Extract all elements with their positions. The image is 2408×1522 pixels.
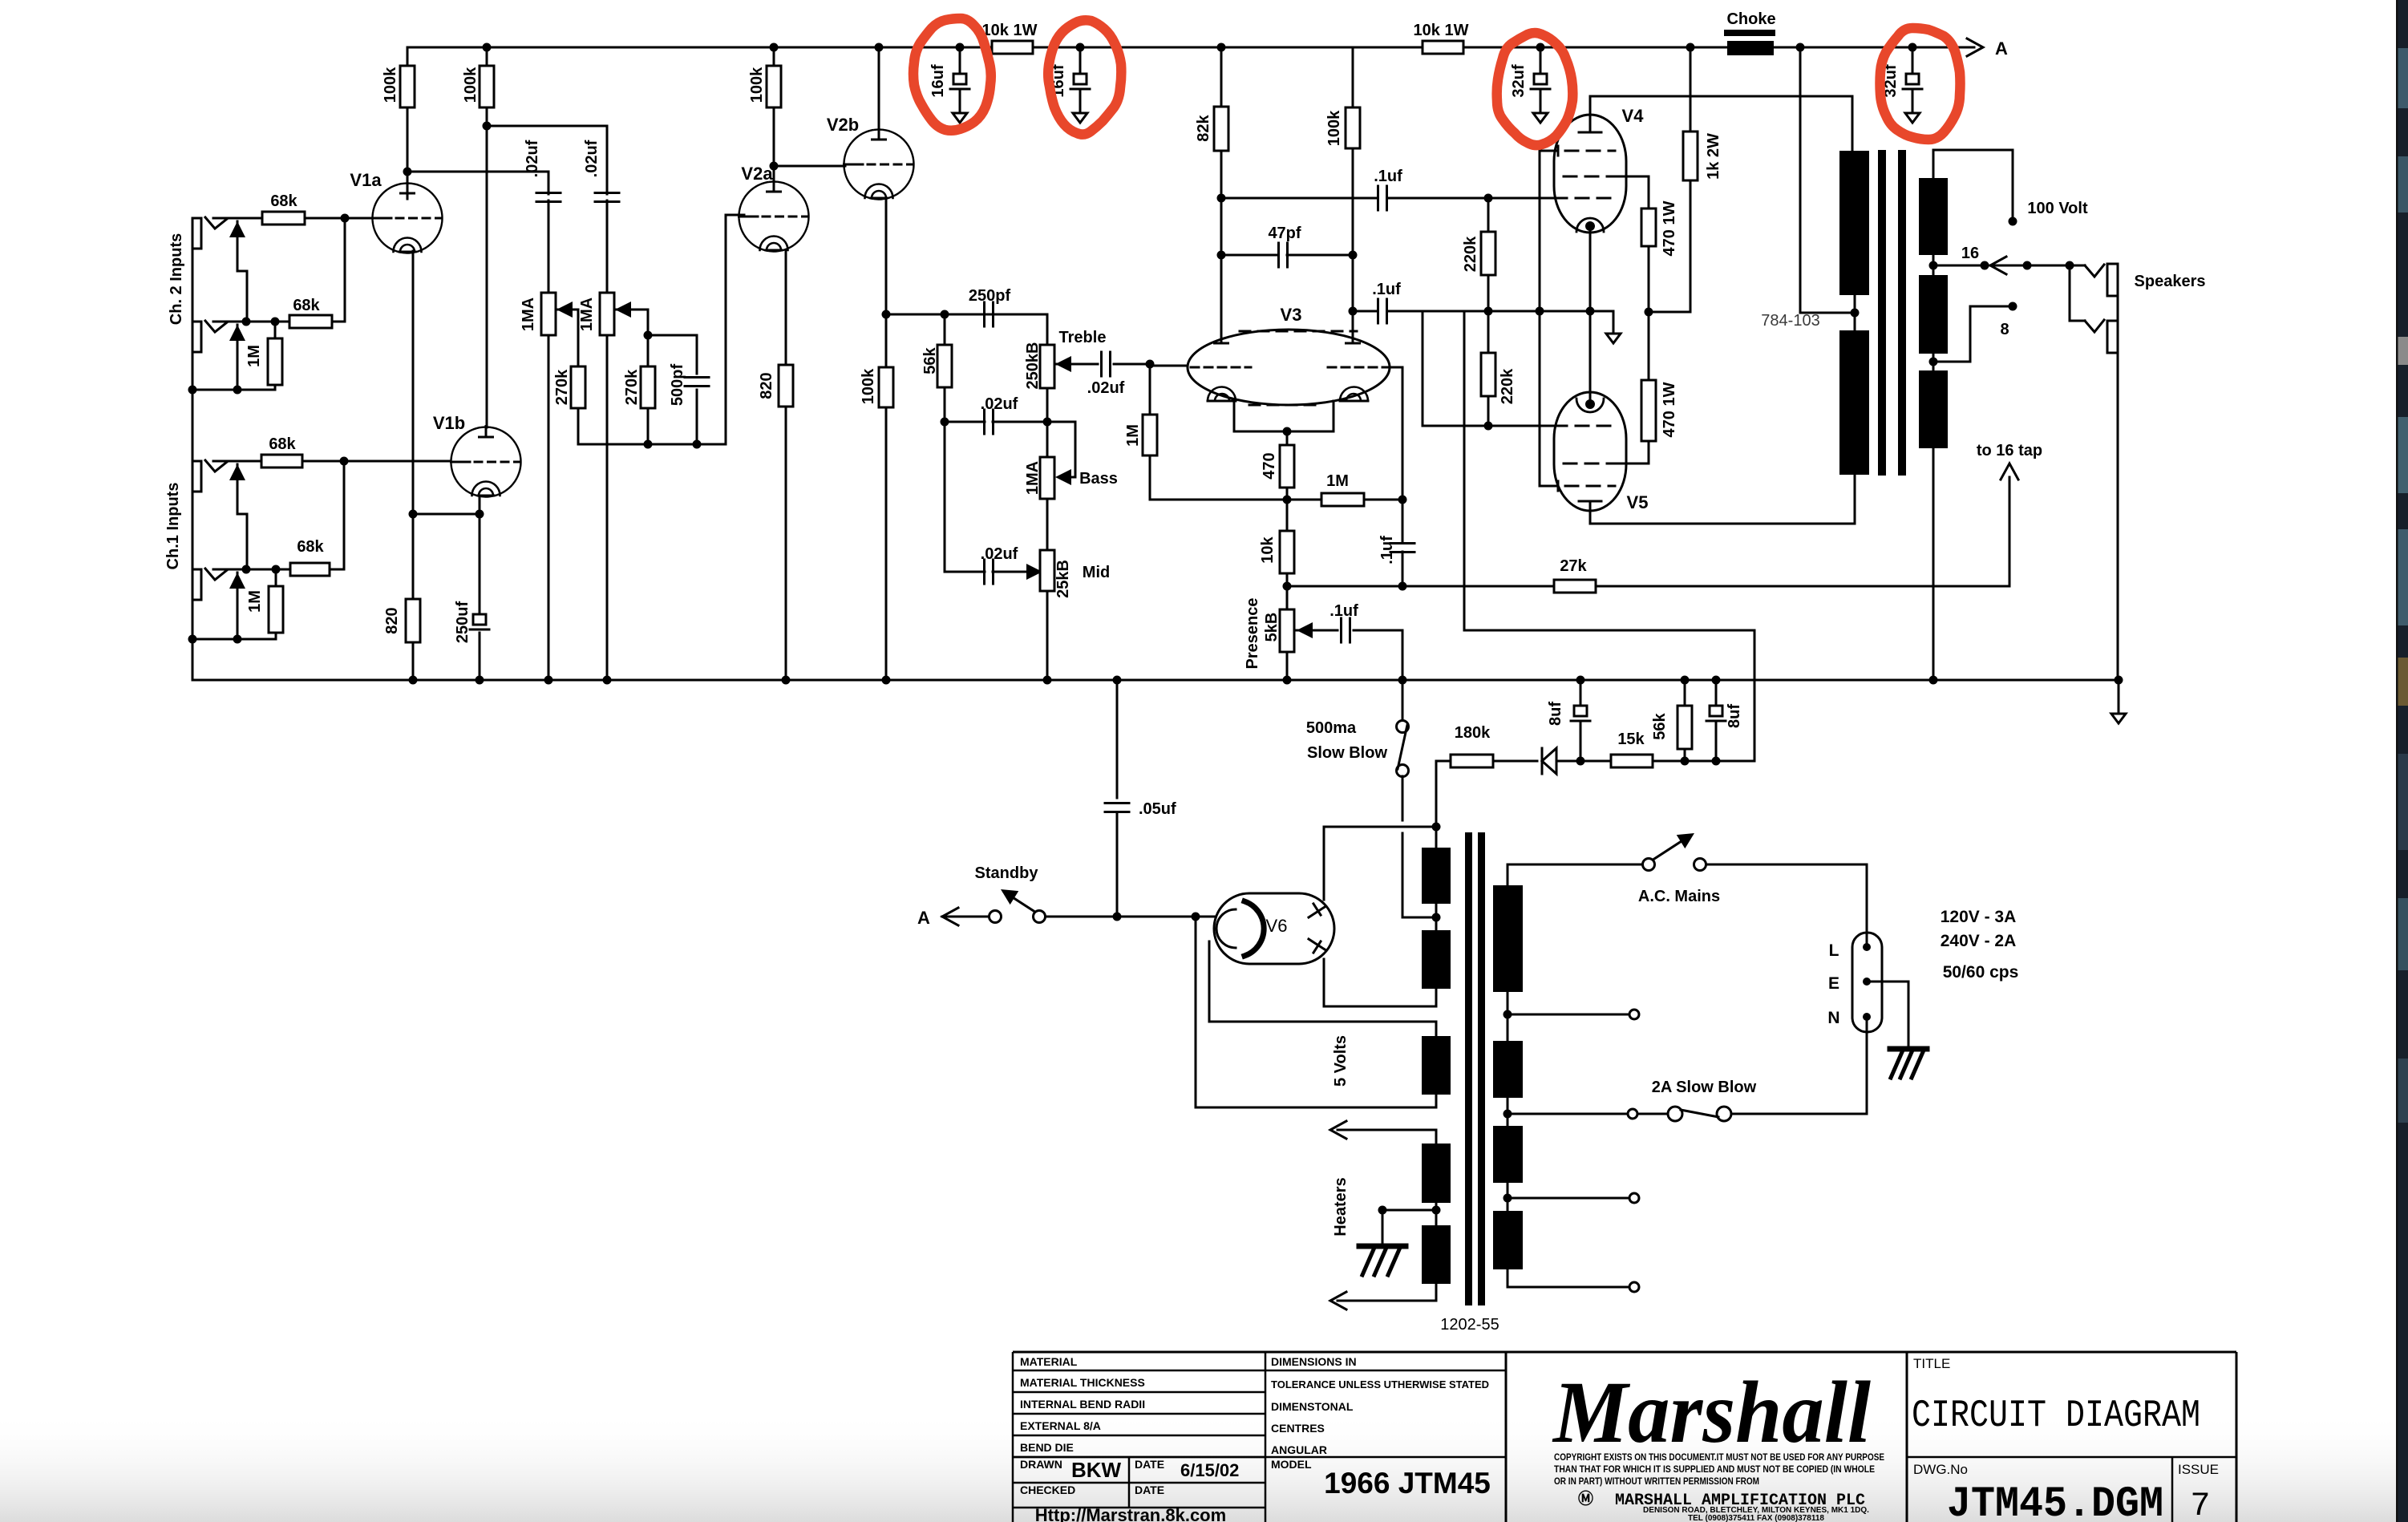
- svg-text:DWG.No: DWG.No: [1913, 1462, 1968, 1477]
- capacitor 32uf (filter 4): [1912, 47, 1914, 74]
- resistor 10k 1W (dropper 1): [992, 41, 1033, 54]
- pot treble wiper: [1055, 356, 1071, 372]
- V3 right cathode: [1340, 387, 1368, 402]
- svg-text:THAN THAT FOR WHICH IT IS SUPP: THAN THAT FOR WHICH IT IS SUPPLIED AND M…: [1554, 1463, 1875, 1475]
- node cathode ground ties: [1536, 307, 1544, 316]
- resistor 1M (V3 grid): [1149, 364, 1151, 415]
- V3 heater dashes: [1249, 404, 1323, 407]
- svg-text:56k: 56k: [921, 346, 939, 374]
- svg-text:BEND DIE: BEND DIE: [1020, 1441, 1074, 1454]
- svg-text:240V - 2A: 240V - 2A: [1941, 932, 2017, 950]
- svg-text:.1uf: .1uf: [1329, 602, 1358, 620]
- capacitor 250pf (treble cap): [983, 302, 985, 326]
- red circle annotation 3 (32uf): [1497, 33, 1573, 145]
- svg-text:2A Slow Blow: 2A Slow Blow: [1652, 1079, 1757, 1096]
- wire 68k-2 up to grid node: [332, 321, 345, 323]
- wire 100V tap: [1932, 150, 1935, 178]
- wire NFB to 16 tap: [2009, 477, 2011, 586]
- svg-text:OR IN PART) WITHOUT WRITTEN PE: OR IN PART) WITHOUT WRITTEN PERMISSION F…: [1554, 1475, 1759, 1487]
- svg-text:L: L: [1829, 941, 1839, 960]
- pot 1MA-2 wiper: [615, 302, 631, 318]
- svg-text:Choke: Choke: [1726, 10, 1775, 28]
- resistor 220k (V4 grid return): [1487, 198, 1490, 232]
- capacitor .1uf (NFB block): [1402, 500, 1404, 543]
- triode V1a: [373, 184, 443, 253]
- svg-text:.1uf: .1uf: [1374, 168, 1402, 185]
- wire primary top to switch: [1507, 864, 1509, 885]
- transformer core (mains): [1465, 832, 1472, 1305]
- svg-text:DRAWN: DRAWN: [1020, 1458, 1062, 1471]
- node 32uf-1 tee: [1536, 43, 1545, 52]
- node V2a plate junction: [770, 162, 779, 171]
- svg-text:15k: 15k: [1617, 731, 1645, 748]
- svg-text:5 Volts: 5 Volts: [1332, 1035, 1350, 1087]
- resistor 820 (V1 cathode): [406, 599, 420, 642]
- capacitor .05uf: [1116, 680, 1119, 798]
- wire V3 grid entry: [1150, 365, 1188, 367]
- grid-stopper arrow Ch1-2: [229, 573, 245, 589]
- primary tap fuse: [1503, 1110, 1512, 1119]
- V6 anode ticks: [1309, 907, 1325, 917]
- node 32uf-2 tee: [1908, 43, 1917, 52]
- V6 filament: [1216, 909, 1236, 948]
- wire heater bottom: [1435, 1284, 1438, 1301]
- wire V1a cathode down: [412, 251, 415, 514]
- svg-text:V1b: V1b: [433, 413, 465, 433]
- fuse 500ma Slow Blow: [1402, 680, 1404, 721]
- resistor 10k 1W (dropper 2): [1423, 41, 1463, 54]
- wire Ch2 jack1 to 68k: [213, 217, 262, 220]
- node V4 grid junction: [1484, 194, 1493, 203]
- svg-text:100k: 100k: [748, 67, 766, 103]
- speaker jack 1: [2070, 265, 2085, 267]
- svg-text:180k: 180k: [1455, 724, 1491, 742]
- wire tone stack feed: [886, 314, 1047, 316]
- svg-text:DATE: DATE: [1135, 1484, 1164, 1496]
- svg-text:100 Volt: 100 Volt: [2027, 200, 2088, 217]
- chassis ground (heater): [1359, 1244, 1406, 1249]
- node V3 right plate junction: [1349, 307, 1358, 316]
- wire V1 cathode to 820: [412, 514, 415, 599]
- svg-text:1MA: 1MA: [578, 298, 596, 331]
- wire V6 anode 1: [1323, 827, 1325, 900]
- transformer heater winding: [1422, 1144, 1451, 1203]
- capacitor .02uf (mid feed): [944, 422, 946, 572]
- wire 8 tap: [1933, 361, 1970, 363]
- wire fuse to N: [1731, 1113, 1867, 1115]
- svg-text:250kB: 250kB: [1024, 342, 1042, 390]
- jack Ch2 input 2: [192, 322, 201, 352]
- node rail choke-left: [1686, 43, 1695, 52]
- svg-text:8uf: 8uf: [1547, 702, 1564, 726]
- potentiometer 1MA (Ch2 volume): [541, 293, 556, 335]
- svg-text:470: 470: [1261, 452, 1278, 479]
- svg-text:6/15/02: 6/15/02: [1180, 1460, 1239, 1480]
- wire bias feed: [1423, 310, 1613, 313]
- svg-text:5kB: 5kB: [1263, 613, 1281, 642]
- svg-text:CHECKED: CHECKED: [1020, 1484, 1075, 1496]
- wire V1b cathode down: [479, 496, 481, 514]
- node diode/8uf junction: [1576, 757, 1585, 766]
- wire Ch1 jack1 to 68k: [213, 460, 261, 463]
- pot bass wiper arrow: [1055, 469, 1071, 485]
- resistor 100k (V1b plate load): [486, 47, 488, 66]
- capacitor .02uf (treble out): [1100, 352, 1103, 376]
- pot presence wiper: [1297, 622, 1313, 638]
- svg-text:E: E: [1828, 974, 1839, 993]
- svg-text:10k 1W: 10k 1W: [982, 22, 1038, 39]
- desktop sliver at right edge: [2396, 0, 2408, 1522]
- resistor 15k (bias): [1611, 755, 1653, 767]
- potentiometer 5kB Presence: [1286, 586, 1289, 609]
- resistor 820 (V2a cathode): [785, 251, 787, 365]
- svg-text:1k 2W: 1k 2W: [1705, 133, 1722, 180]
- transformer core: [1878, 150, 1886, 476]
- node V3 cathode/1M junction: [1283, 496, 1292, 504]
- svg-text:1M: 1M: [245, 345, 263, 367]
- svg-text:Marshall: Marshall: [1552, 1363, 1871, 1461]
- capacitor 16uf (filter 2): [1079, 47, 1082, 74]
- svg-text:25kB: 25kB: [1054, 560, 1072, 598]
- svg-text:DIMENSTONAL: DIMENSTONAL: [1271, 1400, 1354, 1413]
- pot mid wiper arrow: [1026, 564, 1042, 580]
- svg-text:8uf: 8uf: [1726, 704, 1743, 728]
- svg-text:Ch.1 Inputs: Ch.1 Inputs: [164, 483, 182, 570]
- transformer secondary: [1919, 178, 1948, 255]
- svg-text:TOLERANCE UNLESS UTHERWISE ST: TOLERANCE UNLESS UTHERWISE STATED: [1271, 1378, 1489, 1390]
- svg-text:68k: 68k: [269, 435, 296, 453]
- resistor 68k (Ch2 input 1): [262, 212, 305, 225]
- beam tetrode V4: [1554, 115, 1626, 233]
- node V1b plate junction: [483, 122, 492, 131]
- svg-text:MATERIAL: MATERIAL: [1020, 1355, 1078, 1368]
- wire fuse to HT centre tap: [1402, 833, 1404, 917]
- svg-text:EXTERNAL 8/A: EXTERNAL 8/A: [1020, 1419, 1101, 1432]
- wire Ch1 ground link: [192, 638, 276, 641]
- transformer HT winding: [1422, 848, 1451, 904]
- svg-text:V6: V6: [1266, 916, 1288, 936]
- V5 internals: [1565, 485, 1615, 488]
- jack Ch1 input 1: [192, 461, 201, 492]
- node bias junction: [1484, 307, 1493, 316]
- resistor 270k (Ch1 mixer): [647, 335, 650, 366]
- svg-text:.02uf: .02uf: [981, 395, 1018, 413]
- wire mixer output: [578, 443, 726, 446]
- transformer primary winding: [1493, 885, 1523, 992]
- svg-text:32uf: 32uf: [1510, 64, 1528, 97]
- red circle annotation 4 (32uf): [1880, 28, 1961, 140]
- diode (bias rectifier): [1541, 748, 1544, 774]
- svg-text:820: 820: [383, 607, 401, 633]
- resistor 220k (V5 grid return): [1487, 311, 1490, 353]
- svg-text:784-103: 784-103: [1761, 312, 1819, 330]
- svg-text:.02uf: .02uf: [981, 545, 1018, 563]
- node rail/V2b plate: [875, 43, 884, 52]
- wire standby to V6: [1046, 916, 1214, 918]
- wire Ch2 ground link: [192, 389, 275, 391]
- capacitor 16uf (filter 1): [959, 47, 961, 74]
- wire bass to mid: [1046, 499, 1049, 550]
- svg-text:250uf: 250uf: [454, 601, 471, 644]
- resistor 1M (Ch1 grid leak): [275, 569, 277, 586]
- connector mains L-E-N: [1852, 933, 1882, 1032]
- svg-text:8: 8: [2000, 321, 2009, 338]
- node NFB summing: [1398, 496, 1407, 504]
- svg-text:100k: 100k: [382, 67, 399, 103]
- wire beam plates tie: [1539, 151, 1541, 311]
- speaker jack 2: [2069, 265, 2071, 321]
- primary tap 1: [1503, 1010, 1512, 1019]
- wire 68k to V1b grid: [302, 460, 344, 463]
- jack Ch2 input 1: [192, 218, 201, 249]
- resistor 470 1W (V5 screen): [1617, 463, 1649, 465]
- node 16uf-1 tee: [956, 43, 965, 52]
- svg-text:Ch. 2 Inputs: Ch. 2 Inputs: [168, 233, 185, 325]
- node Ch1-2 junctions: [242, 565, 251, 574]
- svg-text:DATE: DATE: [1135, 1458, 1164, 1471]
- node screens join: [1645, 308, 1653, 317]
- resistor 100k (V2a plate load): [773, 47, 775, 66]
- wire B+ rail (node A supply): [407, 47, 992, 49]
- node 8 ohm tap: [1929, 358, 1938, 366]
- svg-text:1MA: 1MA: [1024, 461, 1042, 495]
- svg-text:to 16 tap: to 16 tap: [1977, 442, 2042, 459]
- node rail choke-right: [1796, 43, 1805, 52]
- resistor 1M (PI tail link): [1150, 499, 1321, 501]
- resistor 68k (Ch1 input 2): [290, 563, 330, 576]
- capacitor 8uf (bias filter 2): [1715, 680, 1718, 706]
- grid-stopper arrow Ch1-1: [229, 464, 245, 480]
- capacitor 32uf (filter 3): [1540, 47, 1542, 74]
- svg-text:27k: 27k: [1560, 557, 1587, 575]
- resistor 180k (bias feed): [1436, 760, 1451, 763]
- potentiometer 250kB Treble: [1040, 345, 1054, 388]
- wire V5 plate to OT: [1590, 523, 1855, 525]
- node NFB wire junction: [1398, 582, 1407, 591]
- svg-text:500ma: 500ma: [1306, 719, 1357, 737]
- capacitor .02uf (bass feed): [941, 418, 949, 427]
- potentiometer 25kB Mid: [1040, 550, 1054, 591]
- node presence top: [1283, 582, 1292, 591]
- svg-text:.1uf: .1uf: [1378, 536, 1396, 565]
- wire secondary bottom to ground: [1932, 448, 1935, 680]
- wire main ground bus: [192, 679, 2119, 682]
- svg-text:Standby: Standby: [975, 864, 1039, 882]
- wire primary bottom: [1507, 1269, 1509, 1287]
- svg-text:TITLE: TITLE: [1913, 1356, 1950, 1371]
- svg-text:MATERIAL THICKNESS: MATERIAL THICKNESS: [1020, 1376, 1145, 1389]
- resistor 1M (Ch2 grid leak): [274, 322, 277, 338]
- svg-text:ISSUE: ISSUE: [2178, 1462, 2219, 1477]
- resistor 270k (Ch2 mixer): [571, 366, 585, 408]
- pot 1MA-1 wiper: [556, 302, 573, 318]
- resistor 100k (V2b cathode): [879, 367, 893, 407]
- svg-text:.02uf: .02uf: [1087, 379, 1125, 397]
- svg-text:.05uf: .05uf: [1139, 800, 1176, 818]
- fuse 2A Slow Blow: [1637, 1113, 1666, 1115]
- svg-text:Ⓜ: Ⓜ: [1578, 1489, 1593, 1508]
- node V1a grid junction: [341, 214, 350, 223]
- svg-text:Presence: Presence: [1244, 598, 1261, 670]
- grid-stopper arrow Ch2-1: [229, 221, 245, 237]
- resistor 1k 2W (screen supply): [1690, 180, 1692, 312]
- svg-text:16uf: 16uf: [929, 64, 947, 97]
- resistor 470 1W (V4 screen): [1617, 176, 1649, 178]
- jack Ch1 input 2: [192, 569, 201, 600]
- svg-text:N: N: [1827, 1009, 1839, 1027]
- wire cathode join: [413, 513, 480, 516]
- wire mains L: [1706, 864, 1867, 866]
- potentiometer 1MA (Ch1 volume): [600, 293, 614, 335]
- transformer 5V winding: [1422, 1036, 1451, 1095]
- node .1uf-1 tee: [1217, 194, 1226, 203]
- svg-text:A: A: [917, 908, 930, 928]
- triode V1b: [451, 427, 521, 497]
- resistor 56k (bias divider): [1684, 680, 1686, 706]
- potentiometer 1MA Bass: [1046, 422, 1049, 457]
- wire V3 right grid: [1390, 366, 1402, 369]
- svg-text:100k: 100k: [462, 67, 480, 103]
- wire Ch2 jack2: [213, 321, 245, 323]
- svg-text:V1a: V1a: [350, 170, 382, 190]
- svg-text:68k: 68k: [270, 192, 297, 210]
- wire to V5 grid: [1422, 311, 1424, 426]
- svg-text:Speakers: Speakers: [2135, 273, 2206, 290]
- wire Ch1 jack2: [213, 569, 245, 571]
- capacitor 47pf: [1217, 251, 1226, 260]
- capacitor .02uf (V1a out): [536, 192, 561, 194]
- capacitor 8uf (bias filter 1): [1580, 680, 1582, 706]
- svg-text:220k: 220k: [1462, 236, 1479, 272]
- svg-text:A.C. Mains: A.C. Mains: [1638, 888, 1720, 905]
- title block frame: [1013, 1352, 2236, 1522]
- svg-text:1M: 1M: [1326, 472, 1349, 490]
- node rail/100k-2 tee: [483, 43, 492, 52]
- wire input ground bus left vertical: [192, 218, 194, 680]
- svg-text:COPYRIGHT EXISTS ON THIS DOCUM: COPYRIGHT EXISTS ON THIS DOCUMENT.IT MUS…: [1554, 1451, 1884, 1463]
- red circle annotation 1 (16uf): [913, 18, 991, 131]
- svg-text:1966 JTM45: 1966 JTM45: [1324, 1467, 1491, 1500]
- svg-text:Treble: Treble: [1059, 329, 1107, 346]
- resistor 100k (V3 right plate): [1352, 47, 1354, 107]
- wire 16 tap to speakers: [1933, 265, 1981, 267]
- svg-text:68k: 68k: [297, 538, 324, 556]
- svg-text:A: A: [1995, 38, 2008, 59]
- svg-text:10k 1W: 10k 1W: [1414, 22, 1469, 39]
- svg-text:Heaters: Heaters: [1332, 1177, 1350, 1236]
- svg-text:68k: 68k: [293, 297, 320, 314]
- rectifier V6: [1214, 893, 1334, 964]
- node 16 ohm tap: [1929, 261, 1938, 270]
- svg-text:V3: V3: [1281, 305, 1302, 325]
- resistor 68k (Ch2 input 2): [289, 315, 332, 328]
- svg-text:V5: V5: [1627, 492, 1649, 512]
- wire to treble pot: [1046, 314, 1049, 345]
- svg-text:Bass: Bass: [1079, 470, 1118, 488]
- twin triode V3: [1188, 330, 1390, 405]
- switch A.C. Mains: [1643, 859, 1655, 871]
- capacitor 250uf (V1 cathode bypass): [479, 514, 481, 614]
- resistor 100k (V1a plate load): [407, 47, 409, 66]
- wire V1a plate to .02uf: [407, 171, 548, 173]
- svg-text:500pf: 500pf: [669, 364, 686, 407]
- primary tap 2: [1503, 1194, 1512, 1203]
- svg-text:JTM45.DGM: JTM45.DGM: [1947, 1480, 2163, 1522]
- svg-text:1MA: 1MA: [520, 298, 537, 331]
- node bias nodes: [1681, 757, 1690, 766]
- resistor 27k (NFB): [1287, 585, 1402, 588]
- V5 plate lead: [1579, 500, 1601, 503]
- wire heater top: [1435, 1130, 1438, 1144]
- V3 screen dashes: [1240, 330, 1357, 333]
- svg-text:470 1W: 470 1W: [1661, 382, 1678, 437]
- resistor 470 (V3 cathode): [1280, 445, 1294, 488]
- svg-text:CENTRES: CENTRES: [1271, 1422, 1325, 1435]
- wire 68k to V1a grid: [305, 217, 345, 220]
- svg-text:270k: 270k: [623, 369, 641, 405]
- node bass cap junction: [1043, 418, 1052, 427]
- svg-text:1M: 1M: [1124, 424, 1142, 447]
- transformer 784-103 primary: [1839, 151, 1869, 295]
- wire V1b plate to .02uf: [487, 125, 607, 128]
- node V1a plate junction: [403, 168, 412, 176]
- ground (main bus): [2118, 680, 2120, 714]
- wire treble pot bottom: [1046, 388, 1049, 422]
- svg-text:16: 16: [1961, 245, 1979, 262]
- bus junction dots: [409, 676, 418, 685]
- svg-text:1202-55: 1202-55: [1440, 1316, 1499, 1334]
- svg-text:1M: 1M: [246, 590, 264, 613]
- wire V6 anode 2: [1323, 959, 1325, 1006]
- svg-text:82k: 82k: [1195, 114, 1212, 141]
- node 16uf-2 tee: [1076, 43, 1085, 52]
- svg-text:820: 820: [758, 372, 775, 399]
- svg-text:DIMENSIONS IN: DIMENSIONS IN: [1271, 1355, 1357, 1368]
- svg-text:V2a: V2a: [741, 164, 773, 184]
- svg-text:120V - 3A: 120V - 3A: [1941, 908, 2017, 926]
- wire OT centre tap feed: [1799, 47, 1802, 313]
- svg-text:ANGULAR: ANGULAR: [1271, 1443, 1327, 1456]
- V3 left plate: [1215, 342, 1228, 345]
- svg-text:50/60 cps: 50/60 cps: [1943, 963, 2019, 982]
- wire output cathodes: [1589, 232, 1592, 311]
- svg-text:470 1W: 470 1W: [1661, 200, 1678, 256]
- resistor 56k (tone): [944, 314, 946, 345]
- svg-text:BKW: BKW: [1071, 1458, 1122, 1482]
- wire speaker return: [2117, 296, 2119, 680]
- svg-text:7: 7: [2190, 1487, 2210, 1522]
- node V3 grid node: [1146, 360, 1155, 369]
- V3 grid dashes: [1191, 366, 1251, 369]
- switch standby: [990, 911, 1002, 923]
- svg-text:Http://Marstran.8k.com: Http://Marstran.8k.com: [1035, 1505, 1226, 1522]
- triode V2b: [844, 130, 914, 200]
- capacitor .02uf (V1b out): [595, 192, 619, 194]
- svg-text:TEL (0908)375411 FAX (0908)378: TEL (0908)375411 FAX (0908)378118: [1688, 1514, 1824, 1522]
- svg-text:47pf: 47pf: [1268, 225, 1301, 242]
- chassis ground (earth): [1890, 1046, 1927, 1052]
- wire V6 filament return: [1208, 941, 1211, 1022]
- grid-stopper arrow Ch2-2: [229, 325, 245, 341]
- svg-text:MODEL: MODEL: [1271, 1458, 1312, 1471]
- node V2b cathode junction: [882, 310, 891, 319]
- V3 right plate: [1346, 342, 1360, 345]
- wire 180k to HT tap: [1435, 761, 1438, 827]
- capacitor .1uf (presence): [1340, 618, 1342, 642]
- svg-text:INTERNAL BEND RADII: INTERNAL BEND RADII: [1020, 1398, 1145, 1411]
- beam tetrode V5: [1554, 392, 1626, 511]
- wire heater CT to ground: [1432, 1206, 1441, 1215]
